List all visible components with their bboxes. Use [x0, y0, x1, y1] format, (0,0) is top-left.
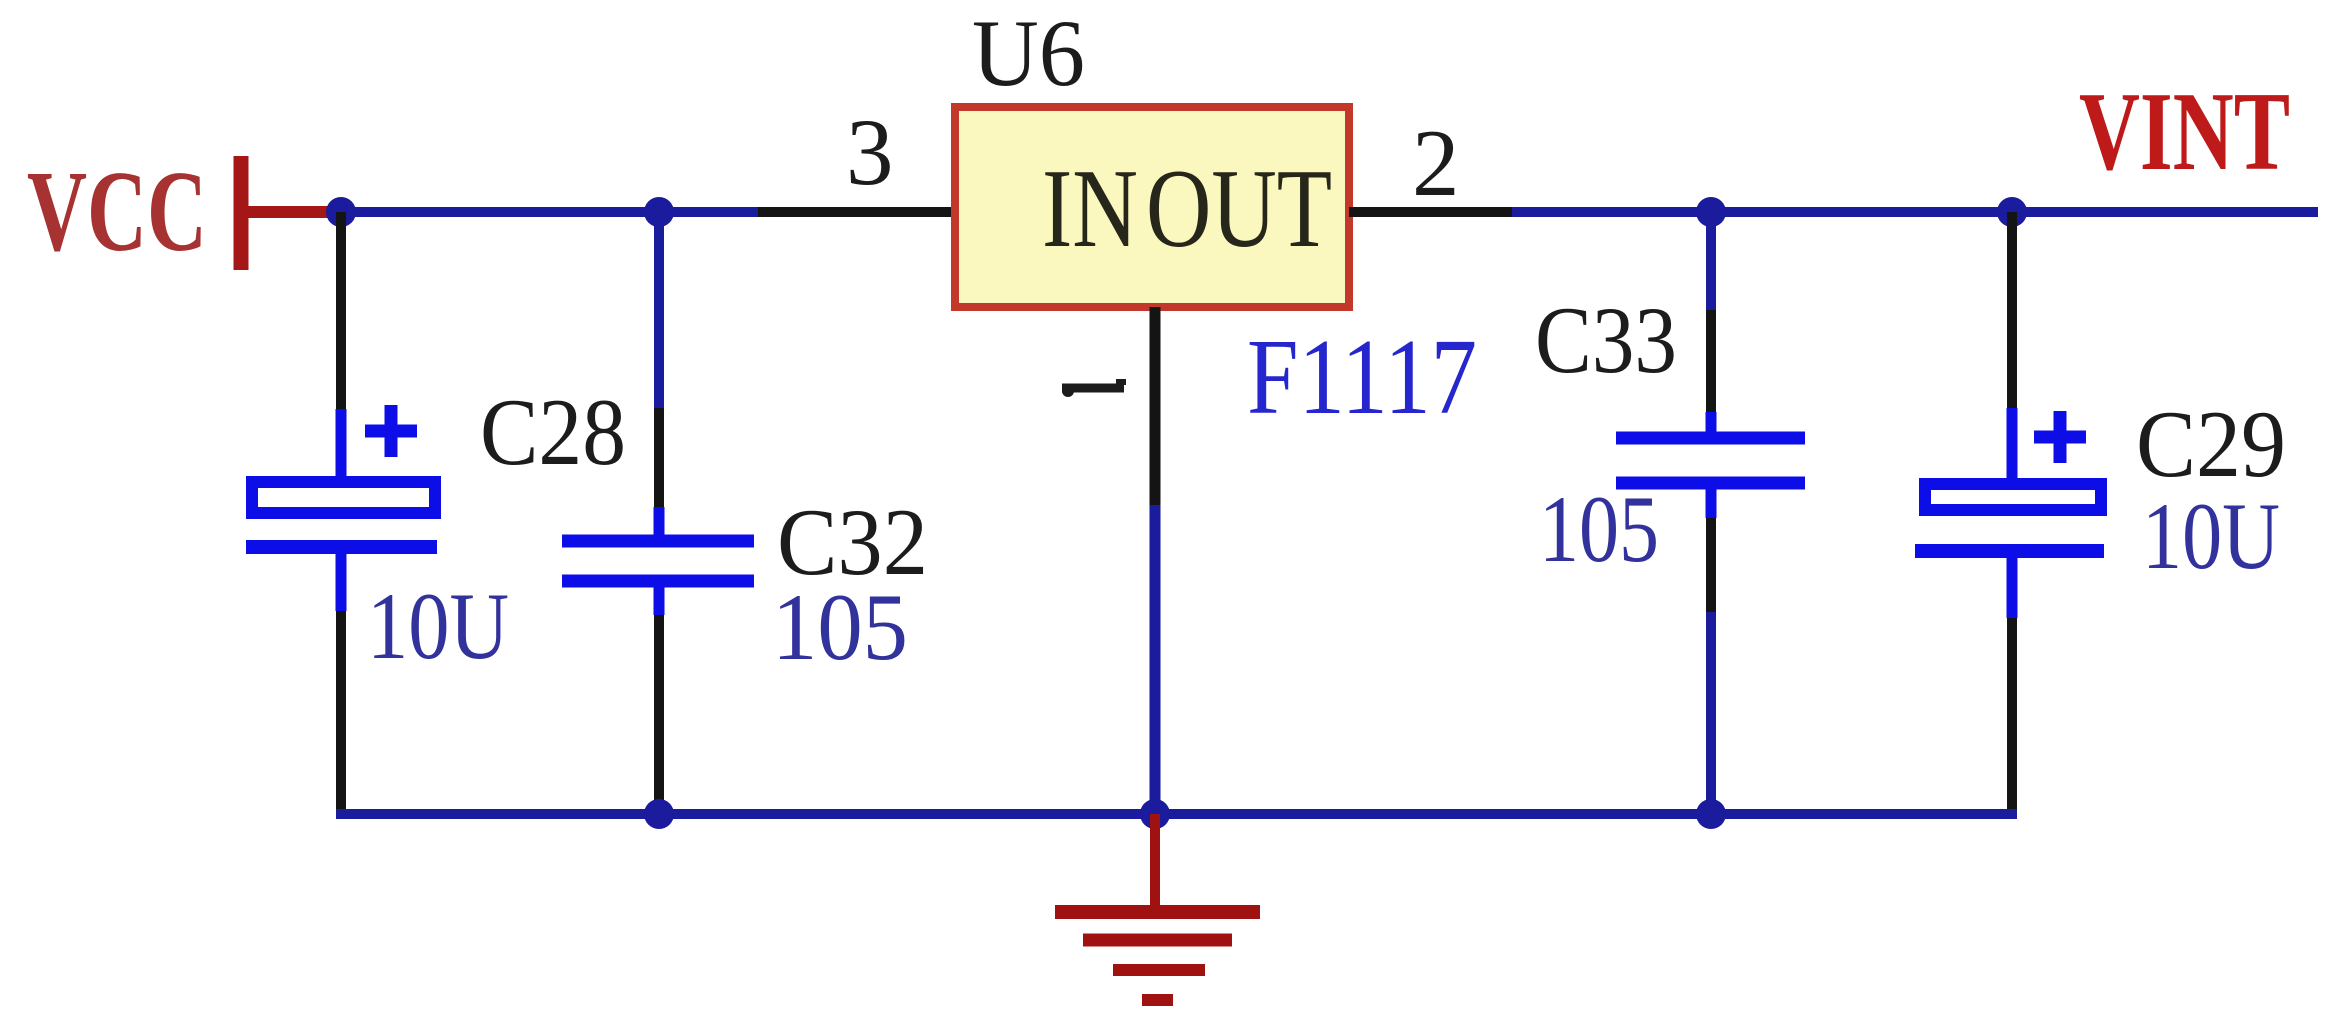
wire C28 column upper black [336, 212, 346, 409]
svg-text:2: 2 [1412, 110, 1460, 216]
svg-text:IN: IN [1042, 147, 1138, 271]
wire C32 pin top blue [654, 507, 665, 541]
svg-text:105: 105 [1539, 476, 1659, 582]
wire C28 pin top blue [336, 409, 347, 478]
capacitor C32 [562, 541, 754, 581]
svg-text:C33: C33 [1535, 287, 1677, 393]
capacitor C33 [1616, 438, 1805, 483]
wire C33 pin top blue [1706, 412, 1717, 438]
svg-text:C29: C29 [2136, 391, 2286, 497]
wire C32 column navy upper [654, 212, 664, 408]
wire top bus navy segment [341, 207, 758, 217]
node junction top C32 [644, 197, 674, 227]
node junction bottom C32 [644, 799, 674, 829]
svg-text:105: 105 [772, 574, 908, 680]
wire C28 pin bottom blue [336, 547, 347, 611]
node junction top-left [326, 197, 356, 227]
svg-text:OUT: OUT [1146, 147, 1332, 271]
wire C33 column black [1706, 518, 1716, 612]
capacitor C28 polarized [246, 405, 437, 547]
wire VCC lead (red) [247, 206, 341, 218]
wire ground lead red [1150, 814, 1160, 912]
wire C33 column navy lower [1706, 612, 1716, 814]
wire bottom bus navy [336, 809, 2017, 819]
wire regulator ground pin black [1150, 307, 1161, 505]
wire C29 column upper black [2007, 212, 2017, 408]
ground [1055, 912, 1260, 1000]
power port VCC [27, 148, 241, 276]
node junction bottom C33 [1696, 799, 1726, 829]
wire C33 column black [1706, 310, 1716, 412]
svg-text:VINT: VINT [2079, 70, 2290, 194]
wire top bus right navy [1512, 207, 2318, 217]
wire C32 pin bottom blue [654, 581, 665, 615]
wire C29 column lower black [2007, 618, 2017, 819]
svg-text:C28: C28 [480, 379, 626, 485]
wire pin 2 lead (black) [1349, 207, 1512, 217]
wire C29 pin bottom blue [2007, 551, 2018, 618]
svg-text:U6: U6 [972, 0, 1085, 106]
svg-text:10U: 10U [367, 573, 509, 679]
svg-text:F1117: F1117 [1247, 318, 1477, 437]
svg-text:10U: 10U [2142, 483, 2280, 589]
pin number 1 (dash) [1062, 382, 1126, 397]
regulator U6 body [955, 107, 1349, 307]
wire C33 pin bottom blue [1706, 483, 1717, 518]
wire C29 pin top blue [2007, 408, 2018, 480]
capacitor C29 polarized [1915, 411, 2104, 551]
svg-text:3: 3 [846, 99, 894, 205]
wire C32 column black [654, 408, 664, 507]
node junction top C29 [1997, 197, 2027, 227]
wire C33 column upper navy [1706, 212, 1716, 310]
wire regulator ground navy [1150, 505, 1161, 814]
wire C32 column lower black [654, 615, 664, 814]
svg-text:VCC: VCC [27, 148, 207, 276]
wire pin 3 lead (black) [758, 207, 955, 217]
wire C28 column lower black [336, 611, 346, 814]
node junction bottom ground [1140, 799, 1170, 829]
node junction top C33 [1696, 197, 1726, 227]
